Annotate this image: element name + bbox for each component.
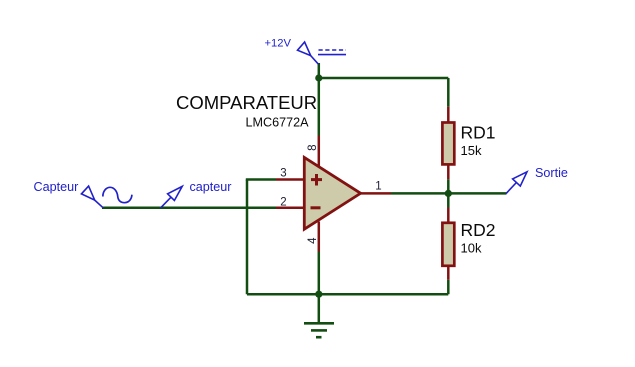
node: output junction dot	[445, 190, 452, 197]
wire: ground stem	[318, 294, 321, 322]
wire: output junction down to RD2 top	[447, 193, 450, 207]
resistor RD1 pin bottom	[447, 164, 450, 179]
resistor RD2 pin top	[447, 208, 450, 223]
svg-text:2: 2	[280, 197, 286, 209]
pin stub 1	[361, 192, 391, 195]
wire: pin 3 wire	[246, 178, 276, 181]
power terminal +12V	[298, 42, 347, 64]
svg-text:COMPARATEUR: COMPARATEUR	[176, 92, 317, 113]
node: bottom rail junction dot	[315, 291, 322, 298]
svg-text:4: 4	[307, 237, 319, 244]
svg-text:15k: 15k	[461, 143, 482, 158]
wire: bottom rail	[247, 293, 448, 296]
terminal Sortie (right arrow)	[506, 172, 527, 194]
wire: RD2 bottom down to bottom rail	[447, 280, 450, 294]
sine wave symbol	[103, 187, 132, 202]
svg-text:+12V: +12V	[265, 38, 292, 50]
svg-text:RD2: RD2	[461, 220, 496, 240]
wire: RD1 bottom to output junction	[447, 179, 450, 193]
ground	[304, 323, 334, 337]
svg-text:3: 3	[280, 168, 286, 180]
pin stub 3	[276, 178, 304, 181]
svg-text:LMC6772A: LMC6772A	[245, 116, 309, 130]
node: top junction dot	[315, 74, 322, 81]
op-amp minus mark	[311, 206, 321, 209]
op-amp U1 body	[304, 157, 360, 229]
resistor RD2 body	[442, 223, 454, 266]
svg-text:Sortie: Sortie	[535, 166, 568, 180]
svg-text:1: 1	[375, 181, 381, 193]
wire: top junction down to op-amp pin 8	[318, 78, 321, 136]
terminal capteur (right arrow)	[161, 186, 182, 207]
resistor RD1 body	[442, 123, 454, 165]
pin stub 4	[318, 222, 321, 252]
svg-text:RD1: RD1	[461, 123, 496, 143]
svg-text:Capteur: Capteur	[34, 180, 79, 194]
resistor RD1 pin top	[447, 107, 450, 123]
svg-text:8: 8	[307, 144, 319, 150]
resistor RD2 pin bottom	[447, 266, 450, 280]
wire: capteur input wire to pin 2	[102, 206, 276, 209]
wire: op-amp pin 4 down to bottom rail	[318, 252, 321, 295]
pin stub 8	[318, 136, 321, 168]
input terminal Capteur (left arrow)	[81, 186, 103, 208]
wire: RD1 column vertical from top rail	[447, 78, 450, 107]
pin stub 2	[276, 206, 304, 209]
svg-text:10k: 10k	[461, 241, 482, 256]
wire: top rail from power column to RD1 column	[319, 77, 449, 80]
wire: left vertical from pin3 wire down to bottom rail	[246, 180, 249, 295]
wire: power terminal down to top junction	[318, 63, 321, 78]
wire: op-amp output to Sortie terminal	[391, 192, 507, 195]
op-amp plus mark	[311, 174, 322, 186]
svg-text:capteur: capteur	[190, 180, 232, 194]
